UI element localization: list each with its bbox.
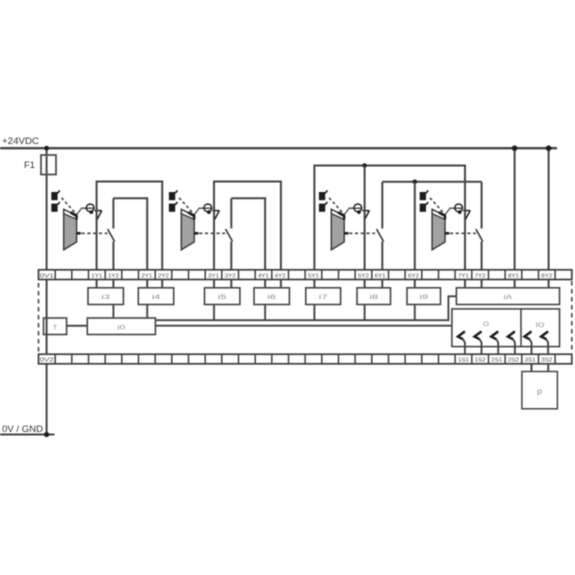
svg-text:1Y1: 1Y1 (91, 273, 102, 279)
svg-text:1Y2: 1Y2 (108, 273, 119, 279)
svg-text:7Y1: 7Y1 (458, 273, 469, 279)
svg-text:T: T (53, 325, 57, 331)
svg-text:8Y2: 8Y2 (541, 273, 552, 279)
svg-text:F1: F1 (24, 160, 35, 170)
svg-text:2S1: 2S1 (491, 358, 502, 364)
svg-text:i4: i4 (152, 295, 162, 301)
svg-text:6Y1: 6Y1 (375, 273, 386, 279)
svg-text:4Y2: 4Y2 (275, 273, 286, 279)
svg-text:0V1: 0V1 (40, 273, 54, 279)
svg-text:1S2: 1S2 (475, 358, 486, 364)
svg-text:0V2: 0V2 (40, 358, 54, 364)
svg-text:i6: i6 (267, 295, 277, 301)
svg-text:3Y2: 3Y2 (225, 273, 236, 279)
svg-text:i3: i3 (101, 295, 111, 301)
svg-text:0V / GND: 0V / GND (2, 424, 44, 434)
svg-text:2S2: 2S2 (508, 358, 519, 364)
svg-text:iA: iA (504, 295, 513, 301)
svg-text:i9: i9 (420, 295, 430, 301)
svg-text:i7: i7 (319, 295, 329, 301)
svg-text:2Y1: 2Y1 (141, 273, 152, 279)
svg-text:i5: i5 (218, 295, 228, 301)
svg-text:p: p (537, 387, 543, 396)
svg-text:8Y1: 8Y1 (508, 273, 519, 279)
svg-text:O: O (483, 321, 489, 328)
svg-text:i0: i0 (117, 325, 126, 331)
svg-text:3Y1: 3Y1 (208, 273, 219, 279)
svg-text:6Y2: 6Y2 (408, 273, 419, 279)
svg-text:4Y1: 4Y1 (258, 273, 269, 279)
svg-text:5Y1: 5Y1 (308, 273, 319, 279)
svg-text:2Y2: 2Y2 (158, 273, 169, 279)
svg-text:5Y2: 5Y2 (358, 273, 369, 279)
svg-text:i8: i8 (370, 295, 380, 301)
svg-text:+24VDC: +24VDC (2, 136, 40, 146)
svg-text:3S1: 3S1 (525, 358, 536, 364)
svg-text:IO: IO (536, 322, 545, 329)
svg-text:1S1: 1S1 (458, 358, 469, 364)
svg-text:7Y2: 7Y2 (475, 273, 486, 279)
svg-text:3S2: 3S2 (541, 358, 552, 364)
